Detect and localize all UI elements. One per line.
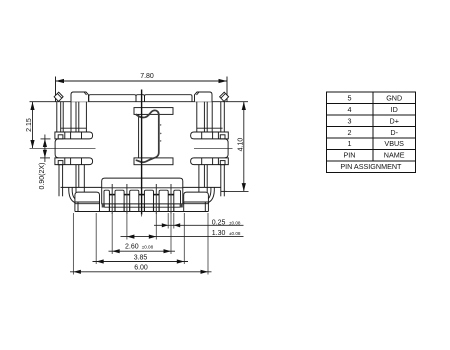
svg-text:7.80: 7.80 [140,73,154,80]
svg-text:1.30: 1.30 [212,230,226,237]
svg-text:4.10: 4.10 [238,138,245,152]
svg-text:0.90(2X): 0.90(2X) [39,163,46,190]
svg-text:±0.08: ±0.08 [229,231,241,236]
svg-text:6.00: 6.00 [134,265,148,272]
svg-text:2: 2 [348,128,352,137]
svg-text:0.25: 0.25 [212,219,226,226]
svg-text:3.85: 3.85 [134,254,148,261]
svg-text:4: 4 [348,105,352,114]
svg-text:PIN ASSIGNMENT: PIN ASSIGNMENT [340,162,402,171]
svg-text:GND: GND [386,93,402,102]
svg-text:NAME: NAME [384,151,405,160]
svg-text:D+: D+ [390,116,399,125]
svg-text:VBUS: VBUS [384,139,404,148]
svg-text:PIN: PIN [344,151,356,160]
svg-text:±0.08: ±0.08 [142,245,154,250]
svg-text:D-: D- [390,128,398,137]
svg-text:2.60: 2.60 [125,244,139,251]
svg-text:2.15: 2.15 [26,118,33,132]
svg-text:3: 3 [348,116,352,125]
svg-text:ID: ID [391,105,398,114]
svg-text:1: 1 [348,139,352,148]
svg-text:5: 5 [348,93,352,102]
svg-text:±0.08: ±0.08 [229,220,241,225]
